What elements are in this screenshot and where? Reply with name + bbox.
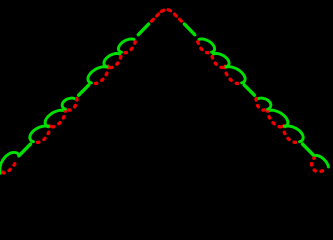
coil loop right2 front arc <box>285 126 303 142</box>
coil loop right4 back arc <box>256 98 264 110</box>
coil corner loop left front arc <box>0 152 18 173</box>
wire left apex dotted run <box>152 13 160 21</box>
wire left slope dash 1 <box>19 144 31 156</box>
coil loop right7 front arc <box>199 39 215 52</box>
wire left slope dash 2 <box>79 85 89 95</box>
coil loop right5 back arc <box>225 66 238 83</box>
coil loop left6 back arc <box>111 53 122 67</box>
coil loop left4 back arc <box>69 98 77 110</box>
coil loop right4 front arc <box>258 98 271 109</box>
coil loop left5 front arc <box>88 67 107 83</box>
wire right slope dash 1 <box>303 144 315 156</box>
coil loop left5 back arc <box>95 66 108 83</box>
coil loop right3 back arc <box>268 110 281 127</box>
coil loop left6 front arc <box>104 54 120 67</box>
coil loop left4 front arc <box>62 98 75 109</box>
coil loop right3 front arc <box>269 110 288 126</box>
coil loop left7 back arc <box>125 38 135 52</box>
wire right apex dotted run <box>173 13 181 21</box>
coil corner loop right back arc <box>312 158 323 172</box>
wire apex rounded dotted cap <box>160 10 173 13</box>
wire right slope dash 2 <box>244 85 254 95</box>
wire right slope dash 3 <box>184 24 194 35</box>
coil loop right2 back arc <box>283 126 295 143</box>
wire left slope dash 3 <box>138 24 148 35</box>
coil loop left2 back arc <box>37 126 49 143</box>
coil loop right6 back arc <box>212 53 223 67</box>
coil corner loop right front arc <box>316 155 328 167</box>
coil loop left3 back arc <box>52 110 65 127</box>
coil corner loop left back arc <box>3 159 16 173</box>
coil loop left2 front arc <box>30 126 48 142</box>
coil loop left7 front arc <box>118 39 134 52</box>
coil loop right6 front arc <box>213 54 229 67</box>
coil loop left3 front arc <box>45 110 64 126</box>
coil loop right5 front arc <box>226 67 245 83</box>
coil loop right7 back arc <box>198 38 209 52</box>
